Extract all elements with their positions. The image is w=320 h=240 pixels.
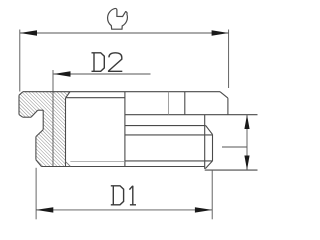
D1 left extension line (35, 168, 37, 220)
flange vertical edge 1 (168, 92, 170, 115)
flange vertical edge 2 (184, 92, 186, 115)
flange bottom line, extends right as dim reference (125, 114, 258, 116)
bore chamfer far edge (66, 97, 125, 99)
top face (23, 91, 220, 93)
groove neck wall (42, 110, 44, 129)
top dim right extension line (228, 30, 230, 89)
dim shaft (246, 115, 248, 170)
flange underside outer (section) (23, 116, 31, 118)
bore bottom chamfer diagonal (66, 162, 71, 167)
D2 text (92, 53, 123, 72)
D1 right arrow (195, 207, 212, 212)
bore mouth chamfer (66, 92, 71, 98)
flange right edge (227, 98, 229, 115)
D1 left arrow (36, 207, 54, 212)
body right edge (212, 134, 214, 161)
leader (222, 146, 247, 148)
lower body top line (125, 125, 206, 127)
body inner vertical edge (204, 115, 206, 169)
D2 extension line (52, 70, 54, 166)
wrench icon (108, 8, 128, 29)
down arrow (244, 156, 249, 171)
bore left wall (65, 98, 67, 166)
lip bottom-left chamfer (36, 160, 42, 167)
left flange bottom chamfer (19, 115, 23, 118)
bottom face (42, 166, 205, 168)
flange top-right chamfer (220, 92, 228, 98)
top dim left arrow (20, 30, 37, 35)
body chamfer tangent line (125, 134, 213, 136)
up arrow (244, 115, 249, 129)
top dim left extension line (19, 30, 21, 92)
D1 right extension line (211, 171, 213, 220)
flange underside rise chamfer (31, 110, 38, 117)
neck-lip chamfer (36, 130, 43, 137)
centerline / section boundary (124, 92, 126, 167)
D1 dimension line (36, 209, 212, 211)
body bottom chamfer tangent (125, 160, 213, 162)
D2 arrow (54, 71, 71, 76)
top dimension line (wrench size) (20, 32, 229, 34)
part outline (19, 92, 258, 170)
flange underside inner (38, 109, 44, 111)
left flange: top chamfer (19, 92, 23, 96)
body top-right chamfer (206, 126, 213, 135)
body bottom-right chamfer (205, 161, 212, 169)
left flange edge (18, 95, 20, 114)
top dim right arrow (212, 30, 229, 35)
hatched section: grommet left half cross-section (19, 92, 70, 167)
right vertical dimension (222, 115, 247, 170)
bore bottom faint line (70, 160, 125, 162)
D2 dimension line (54, 73, 151, 75)
D1 text (111, 186, 136, 205)
lip left edge (35, 137, 37, 160)
bottom tip reference line (205, 169, 258, 171)
